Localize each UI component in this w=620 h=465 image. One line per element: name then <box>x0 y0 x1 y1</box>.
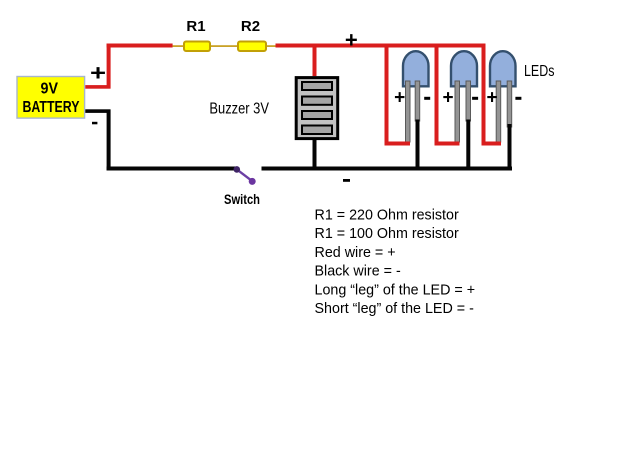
svg-text:Short “leg” of the LED = -: Short “leg” of the LED = - <box>315 301 475 317</box>
wire red top rail right <box>276 44 486 48</box>
wire resistor lead left <box>173 45 184 47</box>
svg-text:Buzzer 3V: Buzzer 3V <box>209 101 269 118</box>
LED D2 <box>451 51 477 142</box>
svg-text:BATTERY: BATTERY <box>23 99 81 116</box>
svg-text:R2: R2 <box>241 18 260 35</box>
label D2 cathode - <box>472 97 478 100</box>
svg-text:+: + <box>90 61 106 86</box>
label D3 cathode - <box>515 97 521 100</box>
wire black from D1 cathode <box>416 120 420 171</box>
svg-text:R1: R1 <box>186 18 205 35</box>
wire bottom rail right <box>262 167 513 171</box>
wire black from D2 cathode <box>466 120 470 171</box>
wire black from D3 cathode <box>508 124 512 171</box>
wire lead right of R2 <box>267 45 276 47</box>
wire red from battery + <box>85 85 110 89</box>
wire black riser down <box>107 110 111 171</box>
wire red drop to buzzer <box>313 48 317 77</box>
buzzer BZ1 <box>296 78 338 139</box>
svg-text:+: + <box>487 88 498 109</box>
resistor R2 <box>238 42 266 52</box>
resistor R1 <box>184 42 210 52</box>
svg-text:Black wire = -: Black wire = - <box>315 264 401 280</box>
svg-text:+: + <box>345 27 358 52</box>
svg-text:R1 = 220 Ohm resistor: R1 = 220 Ohm resistor <box>315 208 459 224</box>
svg-text:LEDs: LEDs <box>524 63 555 80</box>
LED D3 <box>490 51 516 142</box>
wire black from battery - <box>85 109 110 113</box>
svg-text:+: + <box>443 88 454 109</box>
svg-text:Red wire = +: Red wire = + <box>315 245 396 261</box>
label battery - terminal <box>92 122 97 125</box>
svg-text:Long “leg” of the LED = +: Long “leg” of the LED = + <box>315 282 476 298</box>
LED D1 <box>403 51 429 142</box>
svg-text:R1 = 100 Ohm resistor: R1 = 100 Ohm resistor <box>315 226 459 242</box>
svg-text:Switch: Switch <box>224 192 260 207</box>
svg-text:9V: 9V <box>41 81 59 98</box>
battery B1 <box>17 77 85 119</box>
wire black drop from buzzer <box>313 140 317 167</box>
svg-text:+: + <box>394 88 405 109</box>
label D1 cathode - <box>424 97 430 100</box>
note text block <box>315 208 476 318</box>
wire red U to D1 anode <box>385 48 411 146</box>
wire red U to D3 anode <box>482 48 502 146</box>
wire red top rail left <box>107 44 173 48</box>
label - bottom rail <box>343 179 350 182</box>
wire red riser <box>107 44 111 89</box>
wire red U to D2 anode <box>435 48 460 146</box>
wire lead between R1 and R2 <box>211 45 237 47</box>
switch S1 <box>234 166 256 185</box>
wire bottom rail left <box>107 167 238 171</box>
